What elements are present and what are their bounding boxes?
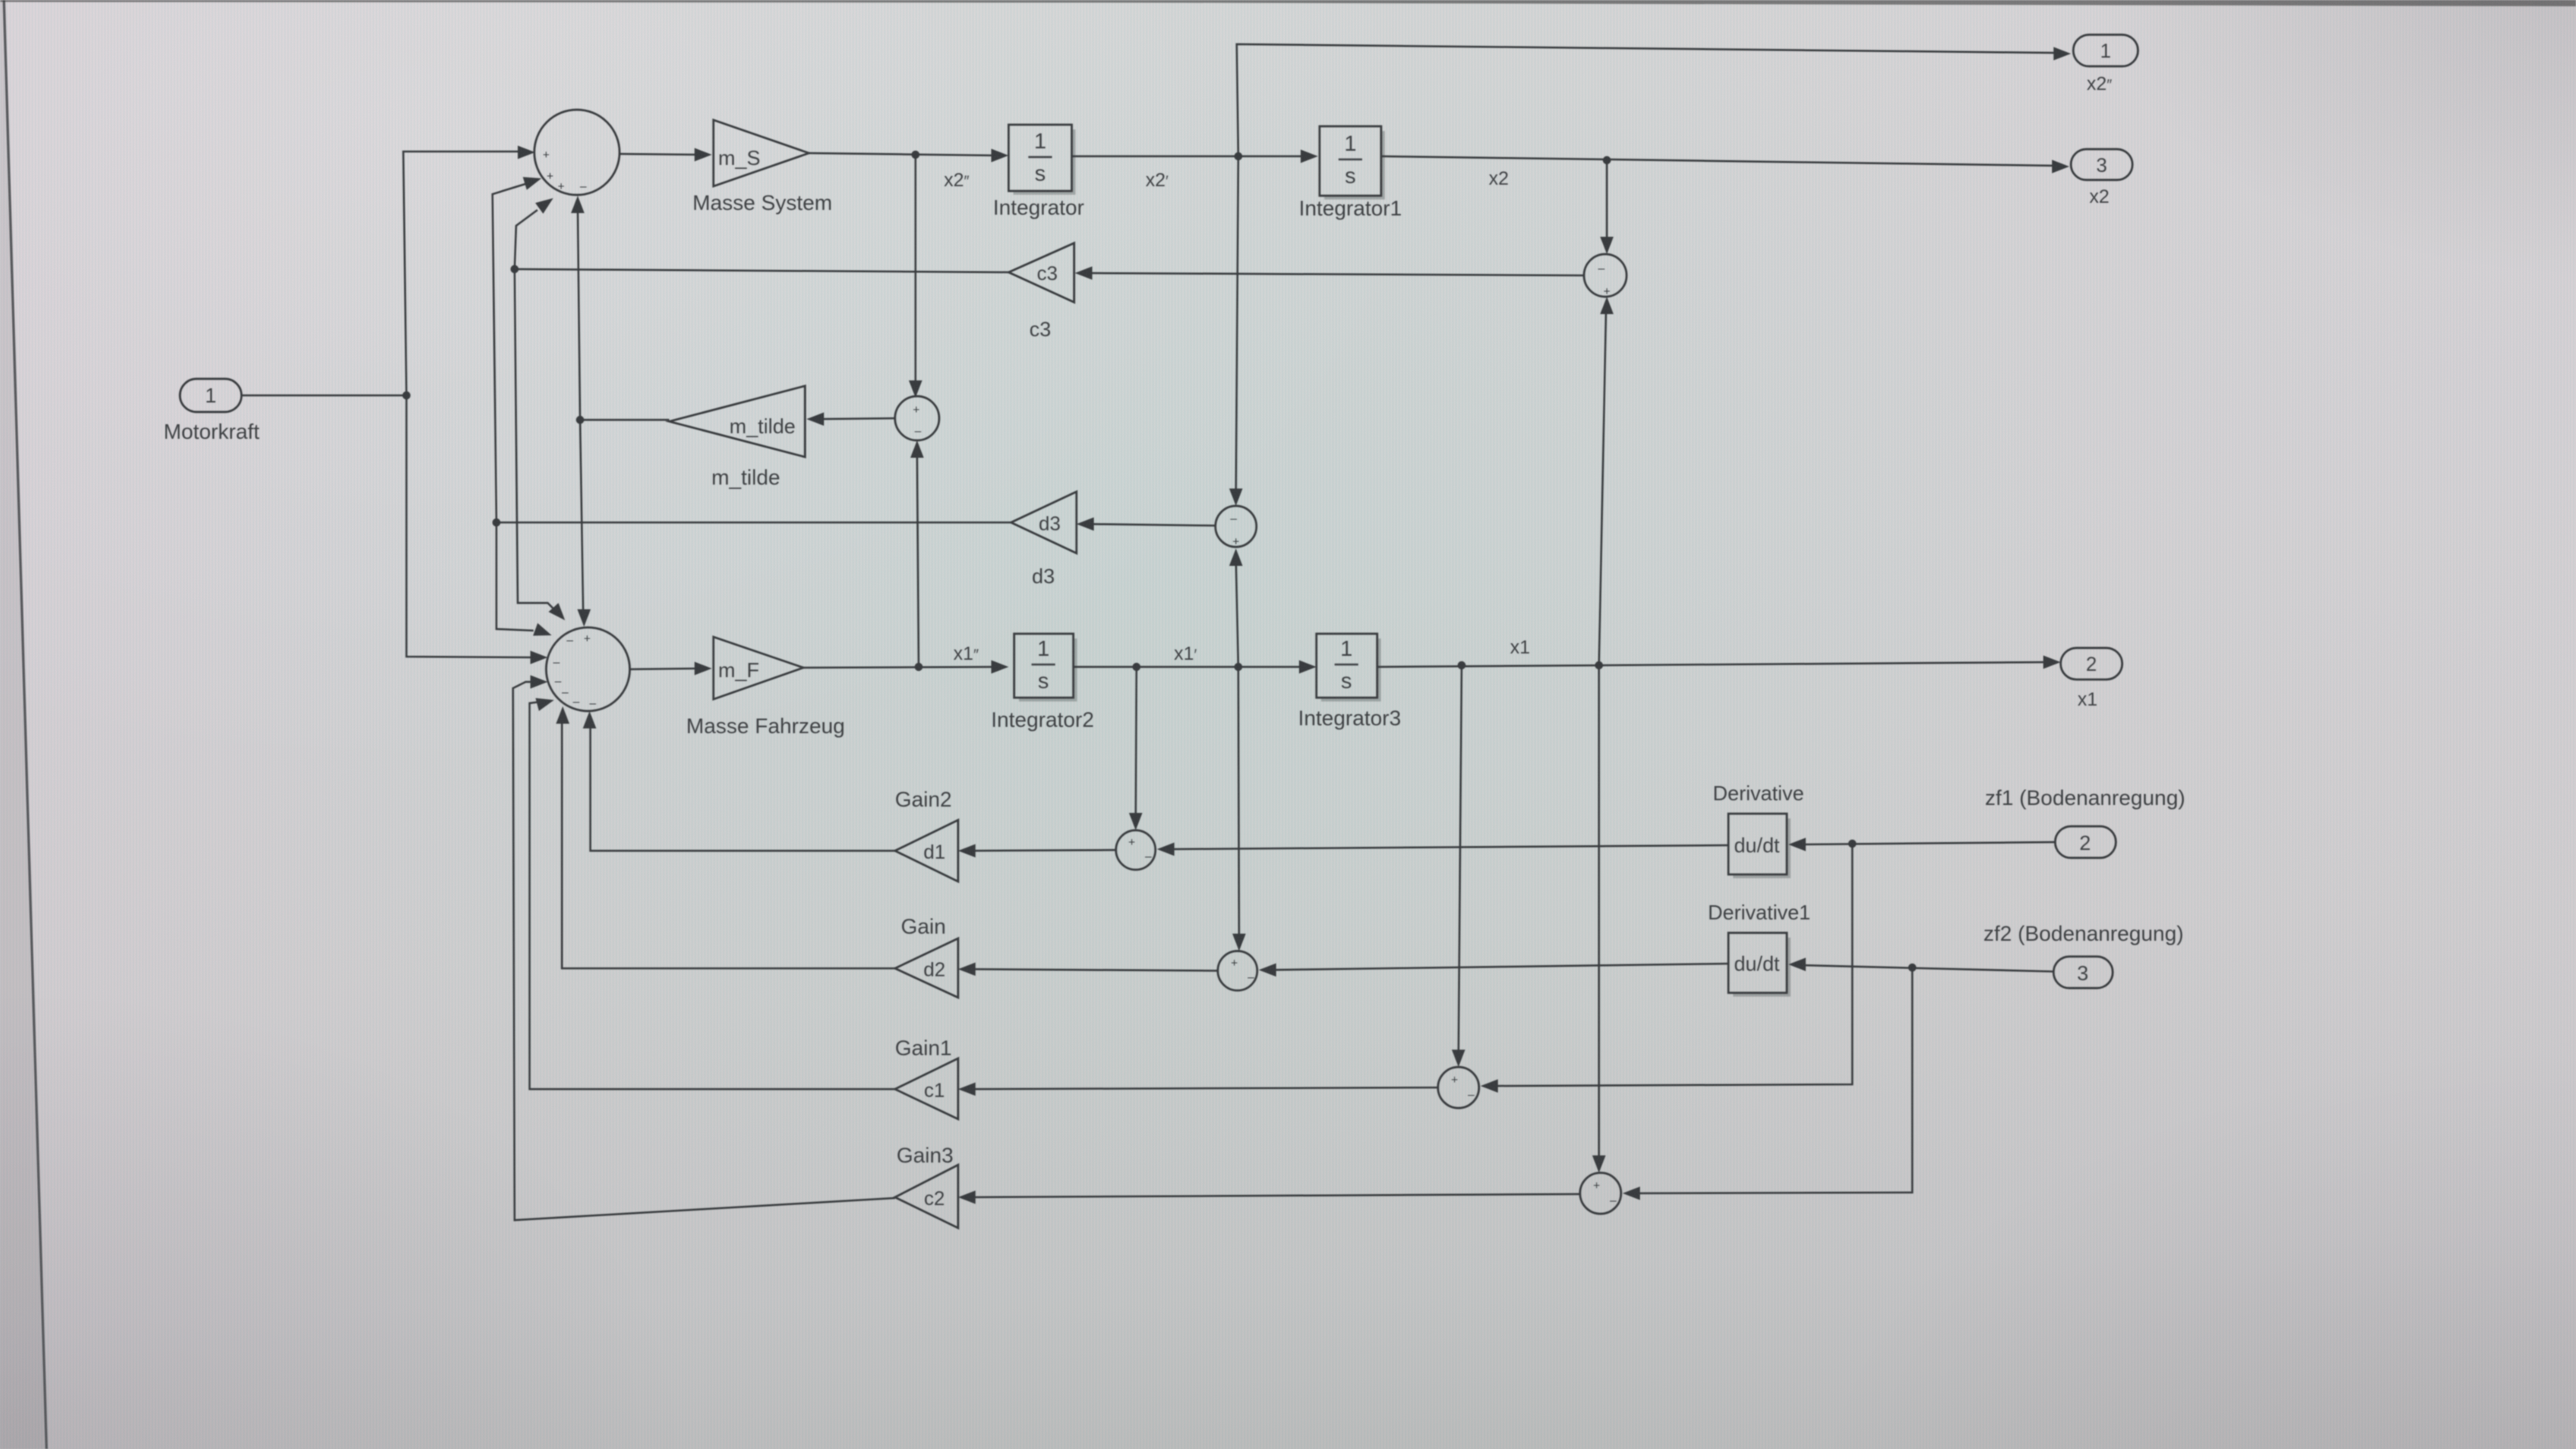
wire x2' up to outport 1	[1237, 44, 2071, 156]
sum block Sum1	[534, 110, 620, 195]
wire x1 down to Sum7	[1452, 665, 1466, 1067]
wire Integrator1 to outport 3 x2	[1381, 156, 2069, 174]
wire Derivative1 to Sum6	[1259, 964, 1728, 977]
label signal x2''	[944, 170, 969, 191]
wire d3 output to branch	[496, 522, 1011, 524]
wire c3 up to Sum1	[515, 210, 537, 269]
inport 2 zf1	[2055, 826, 2116, 858]
wire c2 to Sum2	[513, 676, 895, 1221]
wire Sum5 to gain d1	[958, 844, 1116, 858]
label c3	[1029, 317, 1050, 341]
wire m_tilde up to Sum1	[571, 196, 585, 420]
wire x2'' down to Sum3	[909, 155, 923, 398]
wire Sum7 to gain c1	[958, 1083, 1438, 1096]
sum block Sum7	[1438, 1067, 1479, 1108]
gain d1 Gain2	[895, 820, 958, 882]
label m_tilde	[711, 466, 780, 489]
wire zf1 to Derivative	[1788, 838, 2055, 852]
integrator block Integrator1	[1320, 126, 1383, 198]
wire d2 to Sum2	[556, 706, 896, 968]
node x1'' branch junction	[915, 663, 923, 671]
node x1' branch junction to Sum4 Sum6	[1234, 663, 1242, 671]
wire Sum1 to gain Masse System	[620, 148, 712, 162]
label x2 under outport 3	[2089, 186, 2109, 208]
wire m_tilde output to branch	[580, 419, 669, 421]
label Derivative1	[1708, 900, 1810, 924]
sum block Sum5	[1116, 830, 1155, 870]
label Gain1	[895, 1036, 952, 1060]
node zf2 branch junction	[1908, 964, 1916, 972]
node zf1 branch junction	[1848, 840, 1856, 848]
label Derivative	[1713, 781, 1804, 805]
node c3 branch junction	[511, 265, 519, 273]
screen bezel top edge	[0, 0, 2576, 6]
label x1 under outport 2	[2077, 689, 2097, 710]
wire Sum3 to gain m_tilde	[807, 413, 895, 426]
wire c1 to Sum2	[530, 698, 895, 1090]
label signal x1	[1510, 637, 1529, 658]
inport 3 zf2	[2054, 957, 2113, 988]
outport 3	[2071, 149, 2132, 180]
wire zf2 to Derivative1	[1788, 958, 2054, 972]
wire Derivative to Sum5	[1157, 843, 1728, 856]
arrow c3 into Sum2	[549, 603, 565, 620]
wire Integrator to Integrator1 x2'	[1071, 150, 1318, 163]
wire x2 down to Sum9	[1601, 160, 1614, 254]
label x2'' under outport 1	[2087, 73, 2112, 95]
wire c3 down to Sum2	[515, 269, 557, 612]
node Motorkraft branch junction	[402, 391, 410, 399]
wire c3 feedback into Sum1	[535, 198, 553, 214]
label signal x1''	[953, 643, 979, 665]
label Integrator	[993, 196, 1084, 219]
integrator block Integrator2	[1014, 634, 1076, 700]
wire x1' down to Sum5	[1129, 667, 1143, 830]
sum block Sum6	[1218, 951, 1257, 990]
wire Sum4 to gain d3	[1076, 518, 1215, 531]
outport 1	[2073, 35, 2138, 66]
label zf2 (Bodenanregung)	[1983, 922, 2184, 945]
sum block Sum4	[1215, 506, 1256, 549]
label Gain	[900, 915, 945, 938]
gain m_S Masse System	[713, 120, 809, 186]
wire x1'' up to Sum3	[911, 440, 924, 667]
gain m_F Masse Fahrzeug	[713, 637, 803, 699]
outport 2	[2061, 648, 2122, 680]
sum block Sum2	[546, 627, 630, 711]
node m_tilde branch junction	[576, 416, 584, 424]
wire Sum6 to gain d2	[958, 963, 1218, 976]
wire Sum2 to gain Masse Fahrzeug	[630, 662, 712, 676]
wire x1' up to Sum4	[1230, 549, 1243, 667]
wire Integrator2 to Integrator3 x1'	[1073, 661, 1316, 674]
label signal x2'	[1146, 170, 1169, 191]
wire c3 output to branch	[515, 269, 1009, 272]
label signal x2	[1488, 168, 1508, 189]
gain d3	[1011, 492, 1076, 553]
integrator block Integrator	[1009, 125, 1074, 193]
label Integrator1	[1299, 197, 1402, 220]
wire x2' down to Sum4	[1230, 156, 1243, 506]
node d3 branch junction	[492, 519, 500, 526]
label Gain2	[895, 788, 952, 811]
wire Integrator3 to outport 2 x1	[1377, 656, 2061, 669]
integrator block Integrator3	[1316, 634, 1380, 700]
wire Sum9 to gain c3	[1075, 267, 1584, 280]
arrow d3 into Sum2	[533, 623, 552, 636]
wire Sum8 to gain c2	[958, 1191, 1580, 1204]
wire zf1 down to Sum7	[1481, 844, 1852, 1093]
wire Motorkraft output	[241, 395, 406, 397]
derivative block Derivative1	[1728, 933, 1789, 995]
wire d3 down to Sum2	[496, 522, 534, 631]
label Masse Fahrzeug	[686, 714, 844, 738]
gain m_tilde	[669, 386, 805, 457]
gain c1 Gain1	[895, 1058, 958, 1119]
screen edge left	[0, 0, 47, 1449]
node x1 branch junction to Sum7	[1458, 661, 1466, 669]
inport 1 Motorkraft	[180, 379, 241, 412]
wire Motorkraft down to Sum2	[406, 395, 548, 665]
label signal x1'	[1174, 643, 1197, 665]
wire d3 up to Sum1	[492, 184, 526, 522]
label Masse System	[692, 191, 832, 215]
wire d3 feedback into Sum1	[523, 177, 542, 189]
derivative block Derivative	[1728, 814, 1789, 877]
label Motorkraft	[163, 420, 260, 444]
gain c3	[1009, 243, 1074, 302]
node x2' branch junction	[1234, 152, 1242, 160]
wire x1 down to Sum8	[1593, 665, 1606, 1173]
wire Motorkraft up to Sum1	[403, 146, 535, 396]
sum block Sum3	[895, 396, 939, 440]
label Gain3	[897, 1144, 953, 1167]
gain c2 Gain3	[895, 1165, 958, 1228]
wire x1' down to Sum6	[1233, 667, 1246, 951]
node x1 branch junction to Sum8 Sum9	[1595, 661, 1603, 669]
label zf1 (Bodenanregung)	[1985, 786, 2185, 810]
wire m_tilde down to Sum2	[578, 420, 591, 627]
wire m_F to Integrator2 x1''	[803, 661, 1009, 674]
sum block Sum9	[1584, 254, 1627, 298]
wire x1 up to Sum9	[1599, 297, 1614, 665]
wire m_S to Integrator x2''	[809, 149, 1009, 163]
label Integrator2	[991, 708, 1095, 732]
wire zf2 down to Sum8	[1623, 968, 1912, 1200]
sum block Sum8	[1580, 1173, 1621, 1214]
gain d2 Gain	[895, 938, 958, 998]
node x2'' branch junction	[912, 151, 919, 159]
label Integrator3	[1298, 706, 1402, 730]
wire d1 to Sum2	[583, 711, 896, 851]
node x2 branch junction	[1603, 156, 1611, 164]
label d3	[1032, 564, 1055, 588]
node x1' branch junction to Sum5	[1133, 663, 1140, 671]
